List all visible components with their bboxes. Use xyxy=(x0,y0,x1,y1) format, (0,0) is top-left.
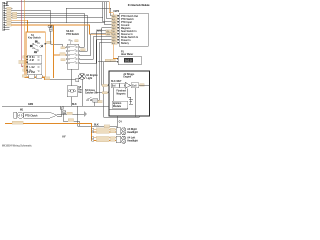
junction X2 xyxy=(63,111,66,114)
wire from top to module pin2 xyxy=(107,2,118,19)
key switch contact block 2 xyxy=(26,65,41,75)
svg-text:Coil: Coil xyxy=(132,85,137,87)
svg-text:Ground: Ground xyxy=(121,25,130,27)
headlight feed drop xyxy=(117,116,122,128)
svg-text:Seat Switch In: Seat Switch In xyxy=(121,30,137,33)
svg-text:Headlight: Headlight xyxy=(127,139,138,142)
wire pin3 with label xyxy=(5,7,12,9)
module pins and labels xyxy=(106,15,119,45)
headlight A3 xyxy=(116,127,138,135)
wire stub pin B xyxy=(5,5,9,7)
engine inner box 2 xyxy=(120,83,124,87)
PTO clutch M1 xyxy=(14,110,58,119)
svg-text:A4 Left: A4 Left xyxy=(127,137,135,140)
svg-text:Engine: Engine xyxy=(123,77,131,79)
engine box A2 xyxy=(109,71,150,116)
long wire to headlight drop xyxy=(78,106,118,128)
module pin5 magneto wire to engine xyxy=(97,28,118,86)
svg-text:C2P2: C2P2 xyxy=(113,11,119,13)
wire stub pin12 xyxy=(5,29,9,31)
wire pin6 down to PTO switch r2 xyxy=(5,14,87,51)
PTO switch bottom wire to reverse switch xyxy=(71,69,73,86)
wire pin4 to connector C3P3 xyxy=(5,10,51,28)
svg-text:YEL: YEL xyxy=(106,31,109,33)
orange light harness xyxy=(5,123,116,140)
key switch S1 box xyxy=(26,32,45,77)
svg-text:B S1: B S1 xyxy=(30,57,36,59)
lower wire with label xyxy=(63,114,79,126)
svg-text:Module: Module xyxy=(113,106,122,108)
svg-text:ORG: ORG xyxy=(106,34,111,36)
svg-text:Catcher Sw: Catcher Sw xyxy=(85,92,98,95)
svg-text:Light: Light xyxy=(87,77,93,80)
svg-text:S2 A/C: S2 A/C xyxy=(66,30,74,33)
ground bus xyxy=(2,104,109,106)
key switch right pin wire xyxy=(45,41,67,47)
spark plug symbol xyxy=(129,97,133,104)
interlock module X1 xyxy=(113,4,150,46)
svg-text:F1 15A: F1 15A xyxy=(28,71,36,74)
svg-text:Reverse In: Reverse In xyxy=(121,34,133,36)
key switch contact block 1 xyxy=(26,55,41,64)
PTO to module wire r4 pin8 xyxy=(80,37,118,60)
headlight A4 xyxy=(116,136,138,144)
connector X3 strip xyxy=(2,2,5,30)
module pin texts xyxy=(121,15,139,45)
svg-text:Sol: Sol xyxy=(112,85,116,87)
svg-text:BLK: BLK xyxy=(94,125,99,127)
harness connector chips xyxy=(92,128,94,141)
svg-text:MAG: MAG xyxy=(97,30,103,33)
svg-text:Magneto: Magneto xyxy=(121,27,131,30)
key switch rotary contacts xyxy=(30,42,43,54)
light E1 xyxy=(76,73,99,81)
svg-text:Ignition: Ignition xyxy=(113,102,122,105)
footer note xyxy=(2,137,67,148)
engine ignition module box xyxy=(112,101,128,108)
ground symbol xyxy=(79,112,86,117)
light E1 wire xyxy=(50,79,76,81)
svg-text:A M: A M xyxy=(30,59,34,62)
fuse orange wire xyxy=(22,0,50,80)
svg-text:YEL: YEL xyxy=(112,31,115,33)
engine inner box 3 xyxy=(131,83,139,88)
svg-text:PTO Switch: PTO Switch xyxy=(121,18,134,21)
svg-text:A3 Right: A3 Right xyxy=(127,128,137,131)
light ground wire xyxy=(81,80,83,107)
PTO to module wire r5 pin9 xyxy=(80,40,118,64)
engine wire label text xyxy=(111,81,122,83)
PTO to module wire r3 pin7 xyxy=(80,34,118,56)
svg-text:MIF: MIF xyxy=(62,137,67,139)
orange wire pin10 to hour meter xyxy=(5,24,112,35)
svg-text:Key Switch: Key Switch xyxy=(28,37,41,40)
svg-text:Power In: Power In xyxy=(121,40,131,42)
svg-text:PTO Clutch Out: PTO Clutch Out xyxy=(121,15,138,18)
svg-text:Battery: Battery xyxy=(121,42,130,45)
reverse switch ground wire xyxy=(71,97,73,107)
orange harness labels xyxy=(12,121,115,142)
engine internal wires xyxy=(109,85,150,117)
svg-text:PTO Clutch: PTO Clutch xyxy=(25,114,38,117)
svg-text:L G2: L G2 xyxy=(30,67,36,69)
PTO switch right pins xyxy=(79,46,85,63)
PTO switch left pins xyxy=(61,46,67,63)
reverse switch S5 xyxy=(67,86,83,97)
svg-text:PTO Switch: PTO Switch xyxy=(66,33,79,36)
svg-text:WHT: WHT xyxy=(112,28,116,30)
module pin10 wire down to grass catcher xyxy=(98,43,118,101)
svg-text:BLK WHT: BLK WHT xyxy=(111,81,122,83)
svg-text:S4 Grass: S4 Grass xyxy=(85,89,96,92)
svg-text:Sw: Sw xyxy=(78,92,82,94)
engine inner box 1 xyxy=(111,83,119,87)
grass catcher switch S4 xyxy=(85,89,102,106)
battery red wire xyxy=(19,0,26,67)
wire pin5 down to PTO switch r1 xyxy=(5,12,84,47)
engine chip xyxy=(140,84,145,86)
clutch wire 2 xyxy=(57,106,62,116)
junction X1 xyxy=(60,106,63,109)
key switch left labels xyxy=(23,56,26,72)
wire pin9 to module pin4 xyxy=(5,2,118,25)
engine left pins xyxy=(102,84,110,94)
clutch wire 1 xyxy=(57,112,79,115)
PTO switch S2 box xyxy=(66,30,79,69)
module pin6 wire to engine pin2 xyxy=(97,31,118,93)
engine magneto triangle xyxy=(125,82,130,88)
orange wire from top to hour meter xyxy=(109,2,117,59)
wire stub pin11 xyxy=(5,26,9,28)
svg-text:Headlight: Headlight xyxy=(127,131,138,134)
wire pin7 to module pin3 xyxy=(5,2,118,22)
orange branch wire down to fuse line xyxy=(53,25,55,78)
svg-text:Flywheel: Flywheel xyxy=(116,91,126,93)
riser wire to module pin1 xyxy=(66,8,118,22)
svg-text:0.0.0: 0.0.0 xyxy=(125,59,132,63)
orange wire pin8 to key switch xyxy=(5,19,27,32)
module label ticks xyxy=(106,16,116,45)
hour meter P1 xyxy=(105,52,141,65)
hour meter ground wire xyxy=(98,62,139,118)
connector C3P3 xyxy=(48,26,54,44)
orange branch to PTO switch pin xyxy=(54,53,67,56)
svg-text:BLK: BLK xyxy=(72,104,77,106)
svg-text:Brake Switch In: Brake Switch In xyxy=(121,36,139,39)
svg-text:PTO Input: PTO Input xyxy=(121,21,132,24)
wire stub pin A xyxy=(5,1,109,4)
fuse F1 xyxy=(28,71,43,79)
svg-text:X1 Interlock Module: X1 Interlock Module xyxy=(128,4,150,7)
svg-text:A2 Briggs: A2 Briggs xyxy=(123,73,135,76)
engine text lines xyxy=(116,91,126,96)
svg-text:GRN: GRN xyxy=(28,104,33,106)
svg-text:Magnets: Magnets xyxy=(116,92,126,95)
svg-text:MX10024 Wiring Schematic: MX10024 Wiring Schematic xyxy=(2,145,32,148)
